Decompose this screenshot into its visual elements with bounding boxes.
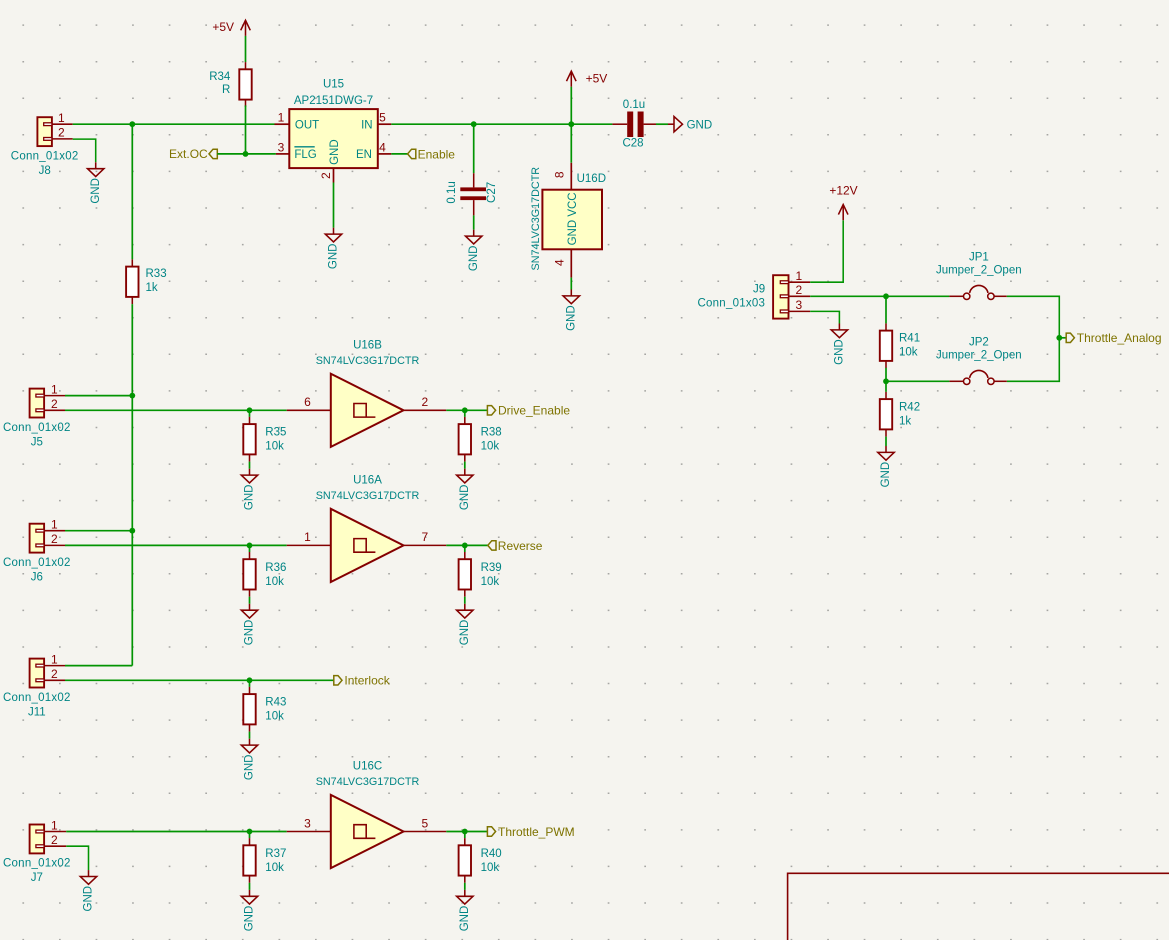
svg-text:4: 4 [553,259,567,266]
ground [241,739,257,780]
svg-text:GND: GND [459,620,471,646]
wire J8.2 to GND [73,139,96,162]
svg-text:GND: GND [880,462,892,488]
sheet border [788,873,1169,940]
wire U16B output [446,409,487,411]
svg-text:R39: R39 [481,562,502,574]
wire J7.1 to U16C input [66,831,287,833]
pin 1 U15 OUT [275,123,290,125]
junction R43 [247,677,253,683]
svg-text:1k: 1k [146,282,158,294]
svg-text:0.1u: 0.1u [446,181,458,203]
wire J9.2 to JP1 [810,295,949,297]
svg-text:10k: 10k [265,576,284,588]
svg-text:R37: R37 [265,848,286,860]
wire stub Throttle_Analog [1059,337,1066,339]
svg-text:1: 1 [58,111,65,125]
svg-text:U16C: U16C [353,761,382,773]
junction R38 [462,407,468,413]
junction R41 bottom [883,378,889,384]
svg-text:FLG: FLG [294,149,316,161]
hierarchical label Enable [408,147,456,161]
svg-text:GND: GND [468,246,480,272]
junction trunk J5 [129,393,135,399]
svg-text:GND: GND [83,886,95,912]
ground [325,228,341,269]
svg-text:R41: R41 [899,333,920,345]
svg-text:GND: GND [244,485,256,511]
svg-text:AP2151DWG-7: AP2151DWG-7 [294,95,373,107]
svg-text:GND: GND [244,906,256,932]
svg-text:U15: U15 [323,79,344,91]
svg-text:2: 2 [51,397,58,411]
svg-text:GND: GND [329,139,341,165]
wire J6.1 to trunk [65,530,132,532]
junction trunk J6 [129,528,135,534]
junction R35 [247,407,253,413]
wire +5V to R34 [245,36,247,62]
resistor R36 [243,552,255,597]
connector J5 Conn_01x02 [30,382,65,417]
svg-text:3: 3 [304,816,311,830]
resistor R38 [459,417,471,462]
wire to R41 [885,296,887,323]
hierarchical label Ext.OC [169,147,217,161]
ground [878,446,894,487]
connector J8 Conn_01x02 [37,111,72,146]
svg-text:R: R [222,84,230,96]
junction R41 top [883,293,889,299]
svg-text:JP2: JP2 [969,336,989,348]
svg-text:2: 2 [319,172,333,179]
svg-text:R38: R38 [481,427,502,439]
svg-text:J8: J8 [39,165,51,177]
pin 4 U15 EN [378,153,392,155]
svg-text:10k: 10k [899,347,918,359]
wire U16A output [446,544,488,546]
svg-text:Throttle_PWM: Throttle_PWM [498,825,575,839]
wire junction to R42 [885,381,887,392]
resistor R43 [243,687,255,732]
buffer U16B SN74LVC3G17DCTR [287,374,447,447]
ground [457,890,473,931]
svg-text:Drive_Enable: Drive_Enable [498,404,570,418]
svg-text:Conn_01x02: Conn_01x02 [3,692,71,704]
hierarchical label Interlock [334,674,391,688]
connector J6 Conn_01x02 [30,518,65,553]
svg-text:GND: GND [244,755,256,781]
svg-text:J6: J6 [31,571,43,583]
svg-text:GND: GND [834,339,846,365]
ground [241,604,257,645]
hierarchical label Drive_Enable [487,404,570,418]
buffer U16C SN74LVC3G17DCTR [287,795,447,868]
wire U15 IN to C28 [391,123,612,125]
wire R34 to FLG net [245,105,247,153]
wire J8.1 to U15 OUT [73,123,275,125]
svg-text:U16B: U16B [353,339,382,351]
pin 3 U15 FLG [276,153,289,155]
wire trunk upper [131,124,133,259]
svg-text:OUT: OUT [295,119,319,131]
IC U16D SN74LVC3G17DCTR power unit [542,190,602,250]
svg-text:Conn_01x02: Conn_01x02 [3,557,71,569]
resistor R39 [459,552,471,597]
svg-text:2: 2 [795,283,802,297]
junction trunk/OUT [129,121,135,127]
svg-text:J7: J7 [31,872,43,884]
svg-text:SN74LVC3G17DCTR: SN74LVC3G17DCTR [316,355,420,367]
junction C27 [471,121,477,127]
svg-text:Throttle_Analog: Throttle_Analog [1077,331,1162,345]
svg-text:Conn_01x02: Conn_01x02 [3,422,71,434]
pin 5 U15 IN [378,123,392,125]
wire to C27 [473,124,475,173]
svg-text:7: 7 [422,530,429,544]
jumper JP2 Jumper_2_Open [949,370,1006,384]
svg-text:GND: GND [244,620,256,646]
svg-text:SN74LVC3G17DCTR: SN74LVC3G17DCTR [316,776,420,788]
svg-text:1: 1 [51,818,58,832]
ground [457,469,473,510]
svg-text:5: 5 [422,816,429,830]
svg-text:10k: 10k [265,711,284,723]
resistor R37 [243,838,255,883]
svg-text:10k: 10k [481,441,500,453]
hierarchical label Throttle_Analog [1066,331,1161,345]
IC U15 AP2151DWG-7 [289,109,378,168]
svg-text:R35: R35 [265,427,286,439]
svg-text:GND: GND [459,906,471,932]
wire Ext.OC to U15 FLG [217,153,276,155]
svg-text:Ext.OC: Ext.OC [169,147,208,161]
wire R41/R42 to JP2 [886,380,949,382]
wire J5.2 to U16B input [65,409,287,411]
svg-text:10k: 10k [481,576,500,588]
svg-text:R43: R43 [265,697,286,709]
svg-text:C27: C27 [486,182,498,203]
svg-text:JP1: JP1 [969,251,989,263]
junction +5V rail [568,121,574,127]
wire R42 to GND [885,437,887,446]
resistor R35 [243,417,255,462]
svg-text:Reverse: Reverse [498,539,543,553]
wire U16D GND pin [570,278,572,290]
svg-text:+5V: +5V [586,71,608,85]
svg-text:GND: GND [328,244,340,270]
svg-text:1: 1 [304,530,311,544]
svg-text:R36: R36 [265,562,286,574]
svg-text:GND: GND [90,178,102,204]
svg-text:1: 1 [795,269,802,283]
junction R34/FLG [243,151,249,157]
resistor R42 [880,392,892,437]
wire J9.1 to +12V [810,220,843,282]
svg-text:10k: 10k [265,441,284,453]
svg-text:R34: R34 [209,71,231,83]
wire J6.2 to U16A input [65,544,287,546]
ground [88,162,104,203]
svg-text:J5: J5 [31,436,43,448]
connector J9 Conn_01x03 [773,269,810,319]
svg-text:1: 1 [51,652,58,666]
svg-text:Conn_01x03: Conn_01x03 [697,298,765,310]
svg-text:Conn_01x02: Conn_01x02 [3,858,71,870]
pin 2 U15 GND [333,168,335,182]
ground [457,604,473,645]
junction R37 [247,829,253,835]
junction R40 [462,829,468,835]
svg-text:GND: GND [687,119,713,131]
resistor R40 [459,838,471,883]
wire +5V to U16D VCC [570,87,572,163]
svg-text:U16A: U16A [353,474,382,486]
power +5V (U16D) [567,71,608,87]
svg-text:Jumper_2_Open: Jumper_2_Open [936,350,1022,362]
hierarchical label Reverse [488,539,543,553]
ground [831,324,847,365]
wire U15 GND pin [333,183,335,228]
svg-text:GND VCC: GND VCC [567,192,579,245]
wire C27 to GND [473,215,475,229]
wire J11.2 to Interlock [65,679,334,681]
pin 8 U16D VCC [570,163,572,190]
svg-text:3: 3 [795,298,802,312]
svg-text:10k: 10k [481,862,500,874]
svg-text:1k: 1k [899,415,911,427]
jumper JP1 Jumper_2_Open [949,285,1006,299]
svg-text:Conn_01x02: Conn_01x02 [11,150,79,162]
junction R36 [247,543,253,549]
power symbol GND (net arrow right) [668,117,712,132]
svg-text:R42: R42 [899,401,920,413]
svg-text:GND: GND [459,485,471,511]
svg-text:2: 2 [51,667,58,681]
junction R39 [462,543,468,549]
capacitor C27 [460,173,486,215]
svg-text:2: 2 [51,532,58,546]
ground [466,230,482,271]
svg-text:2: 2 [51,833,58,847]
wire trunk to J11.1 [65,665,132,667]
svg-text:J9: J9 [753,283,765,295]
ground [241,469,257,510]
svg-text:2: 2 [422,395,429,409]
resistor R41 [880,323,892,368]
svg-text:IN: IN [361,119,373,131]
svg-text:5: 5 [379,111,386,125]
svg-text:1: 1 [51,518,58,532]
capacitor C28 [612,112,656,138]
wire U15 EN to Enable [391,153,407,155]
svg-text:+12V: +12V [829,184,857,198]
svg-text:Enable: Enable [418,147,456,161]
svg-text:0.1u: 0.1u [623,99,645,111]
svg-text:+5V: +5V [212,20,234,34]
wire R41 to R42 [885,368,887,382]
svg-text:C28: C28 [622,138,643,150]
ground [563,290,579,331]
svg-text:2: 2 [58,126,65,140]
hierarchical label Throttle_PWM [487,825,574,839]
svg-text:1: 1 [278,111,285,125]
svg-text:Interlock: Interlock [344,674,390,688]
svg-text:U16D: U16D [577,173,606,185]
svg-text:GND: GND [565,305,577,331]
resistor R34 [239,62,251,107]
wire U16C output [446,831,487,833]
power +12V [829,184,857,221]
power +5V (R34) [212,20,250,36]
svg-text:1: 1 [51,382,58,396]
svg-text:8: 8 [553,171,567,178]
wire trunk lower [131,304,133,665]
ground [241,890,257,931]
svg-text:6: 6 [304,395,311,409]
svg-text:R33: R33 [146,268,167,280]
junction Throttle_Analog [1056,335,1062,341]
svg-text:SN74LVC3G17DCTR: SN74LVC3G17DCTR [530,167,542,271]
svg-text:R40: R40 [481,848,502,860]
svg-text:J11: J11 [28,706,46,718]
connector J7 Conn_01x02 [30,818,67,853]
resistor R33 [126,259,138,304]
svg-text:4: 4 [379,140,386,154]
wire J9.3 to GND [810,311,839,323]
wire J5.1 to trunk [65,395,132,397]
wire J7.2 to GND [66,846,88,870]
wire JP1 to JP2 right side [1007,296,1060,381]
pin 4 U16D GND [570,249,572,277]
svg-text:Jumper_2_Open: Jumper_2_Open [936,265,1022,277]
svg-text:SN74LVC3G17DCTR: SN74LVC3G17DCTR [316,490,420,502]
buffer U16A SN74LVC3G17DCTR [287,509,447,582]
connector J11 Conn_01x02 [30,652,65,687]
svg-text:3: 3 [278,140,285,154]
ground [80,870,96,911]
wire C28 to GND arrow [656,123,668,125]
svg-text:EN: EN [356,149,372,161]
svg-text:10k: 10k [265,862,284,874]
